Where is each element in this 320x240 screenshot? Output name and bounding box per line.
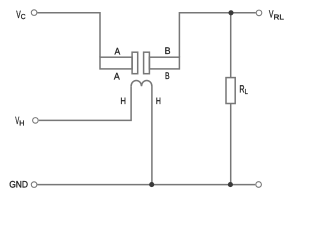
- junction VRL node: [228, 10, 233, 15]
- svg-text:B: B: [165, 71, 170, 82]
- plate B: [144, 52, 150, 73]
- junction heater to ground: [149, 182, 154, 187]
- svg-text:H: H: [156, 96, 161, 106]
- ground rail wire: [37, 184, 255, 186]
- resistor RL: [226, 78, 235, 104]
- wire VH terminal to heater: [39, 86, 131, 120]
- terminal VC: [31, 10, 37, 16]
- wire VRL junction to resistor RL: [230, 13, 232, 78]
- wire VC terminal to electrode A bar: [37, 13, 100, 58]
- svg-text:VC: VC: [16, 9, 25, 21]
- svg-text:VH: VH: [15, 115, 24, 128]
- electrode A bar: [100, 57, 132, 69]
- svg-text:A: A: [115, 47, 121, 58]
- svg-text:VRL: VRL: [269, 9, 284, 22]
- terminal output return: [256, 182, 262, 188]
- terminal VRL: [256, 10, 262, 16]
- wire electrode B bar to VRL terminal: [179, 13, 255, 58]
- svg-text:B: B: [165, 46, 171, 57]
- heater filament H: [131, 80, 152, 184]
- wire resistor RL to ground rail: [230, 104, 232, 185]
- svg-text:H: H: [120, 96, 126, 106]
- terminal VH: [33, 118, 39, 124]
- terminal GND: [31, 182, 37, 188]
- svg-text:RL: RL: [239, 83, 247, 96]
- electrode B bar: [149, 57, 179, 69]
- plate A: [132, 52, 138, 73]
- svg-text:A: A: [114, 71, 120, 82]
- junction RL to ground: [228, 182, 233, 187]
- svg-text:GND: GND: [9, 179, 28, 190]
